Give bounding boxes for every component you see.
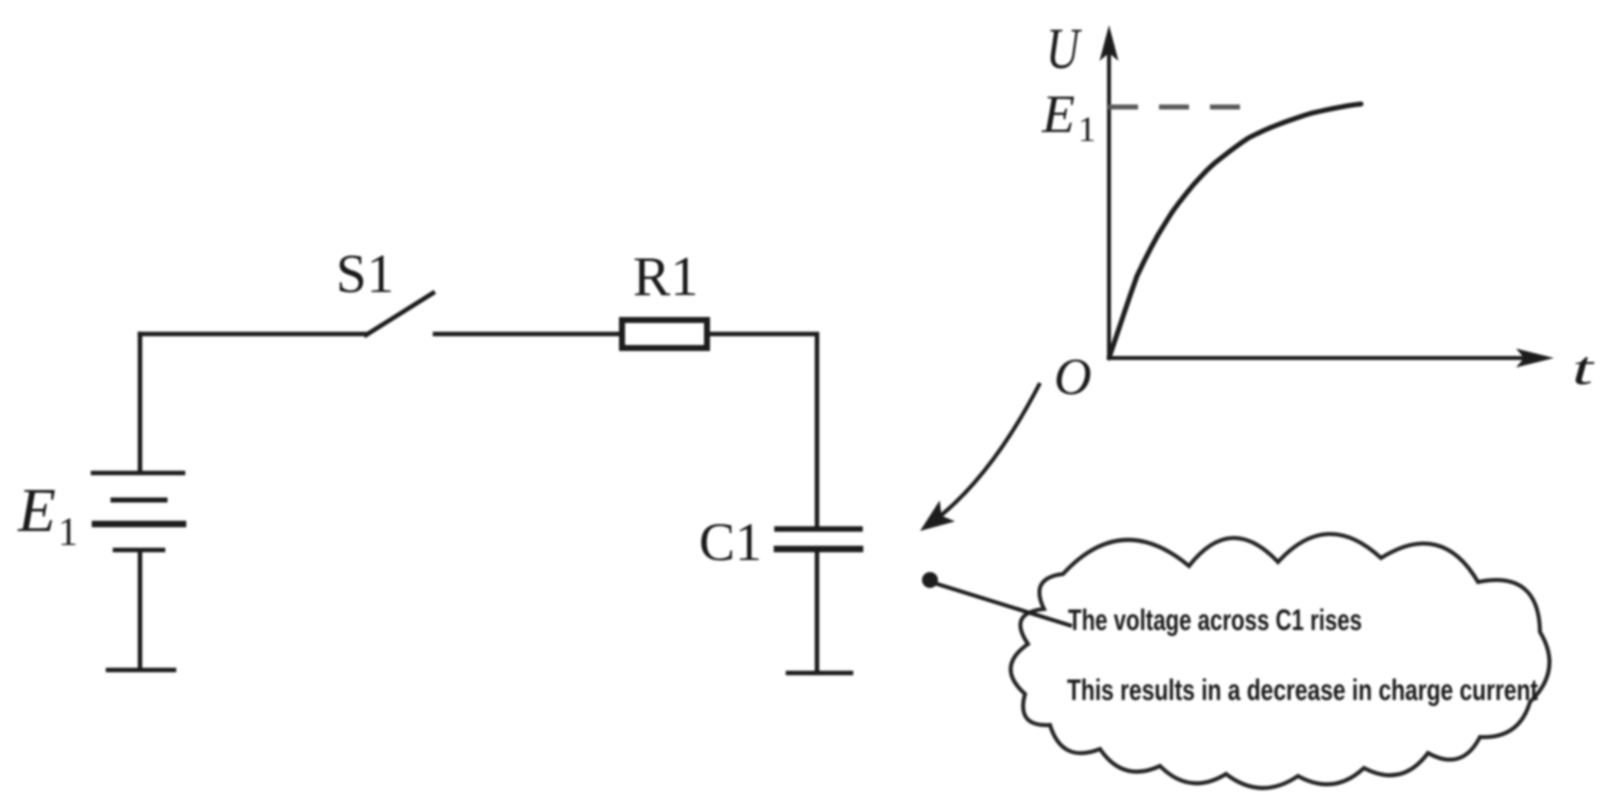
svg-text:1: 1 [58, 509, 78, 554]
svg-text:O: O [1054, 349, 1092, 406]
svg-text:The voltage across C1 rises: The voltage across C1 rises [1068, 604, 1362, 637]
svg-text:S1: S1 [336, 243, 394, 304]
svg-text:C1: C1 [699, 512, 762, 572]
svg-text:U: U [1046, 17, 1082, 81]
svg-text:R1: R1 [633, 246, 698, 308]
svg-text:E: E [17, 477, 56, 545]
svg-text:E: E [1041, 84, 1075, 144]
svg-text:t: t [1572, 342, 1596, 395]
svg-text:1: 1 [1078, 109, 1096, 149]
svg-text:This results in a decrease in: This results in a decrease in charge cur… [1067, 674, 1538, 707]
